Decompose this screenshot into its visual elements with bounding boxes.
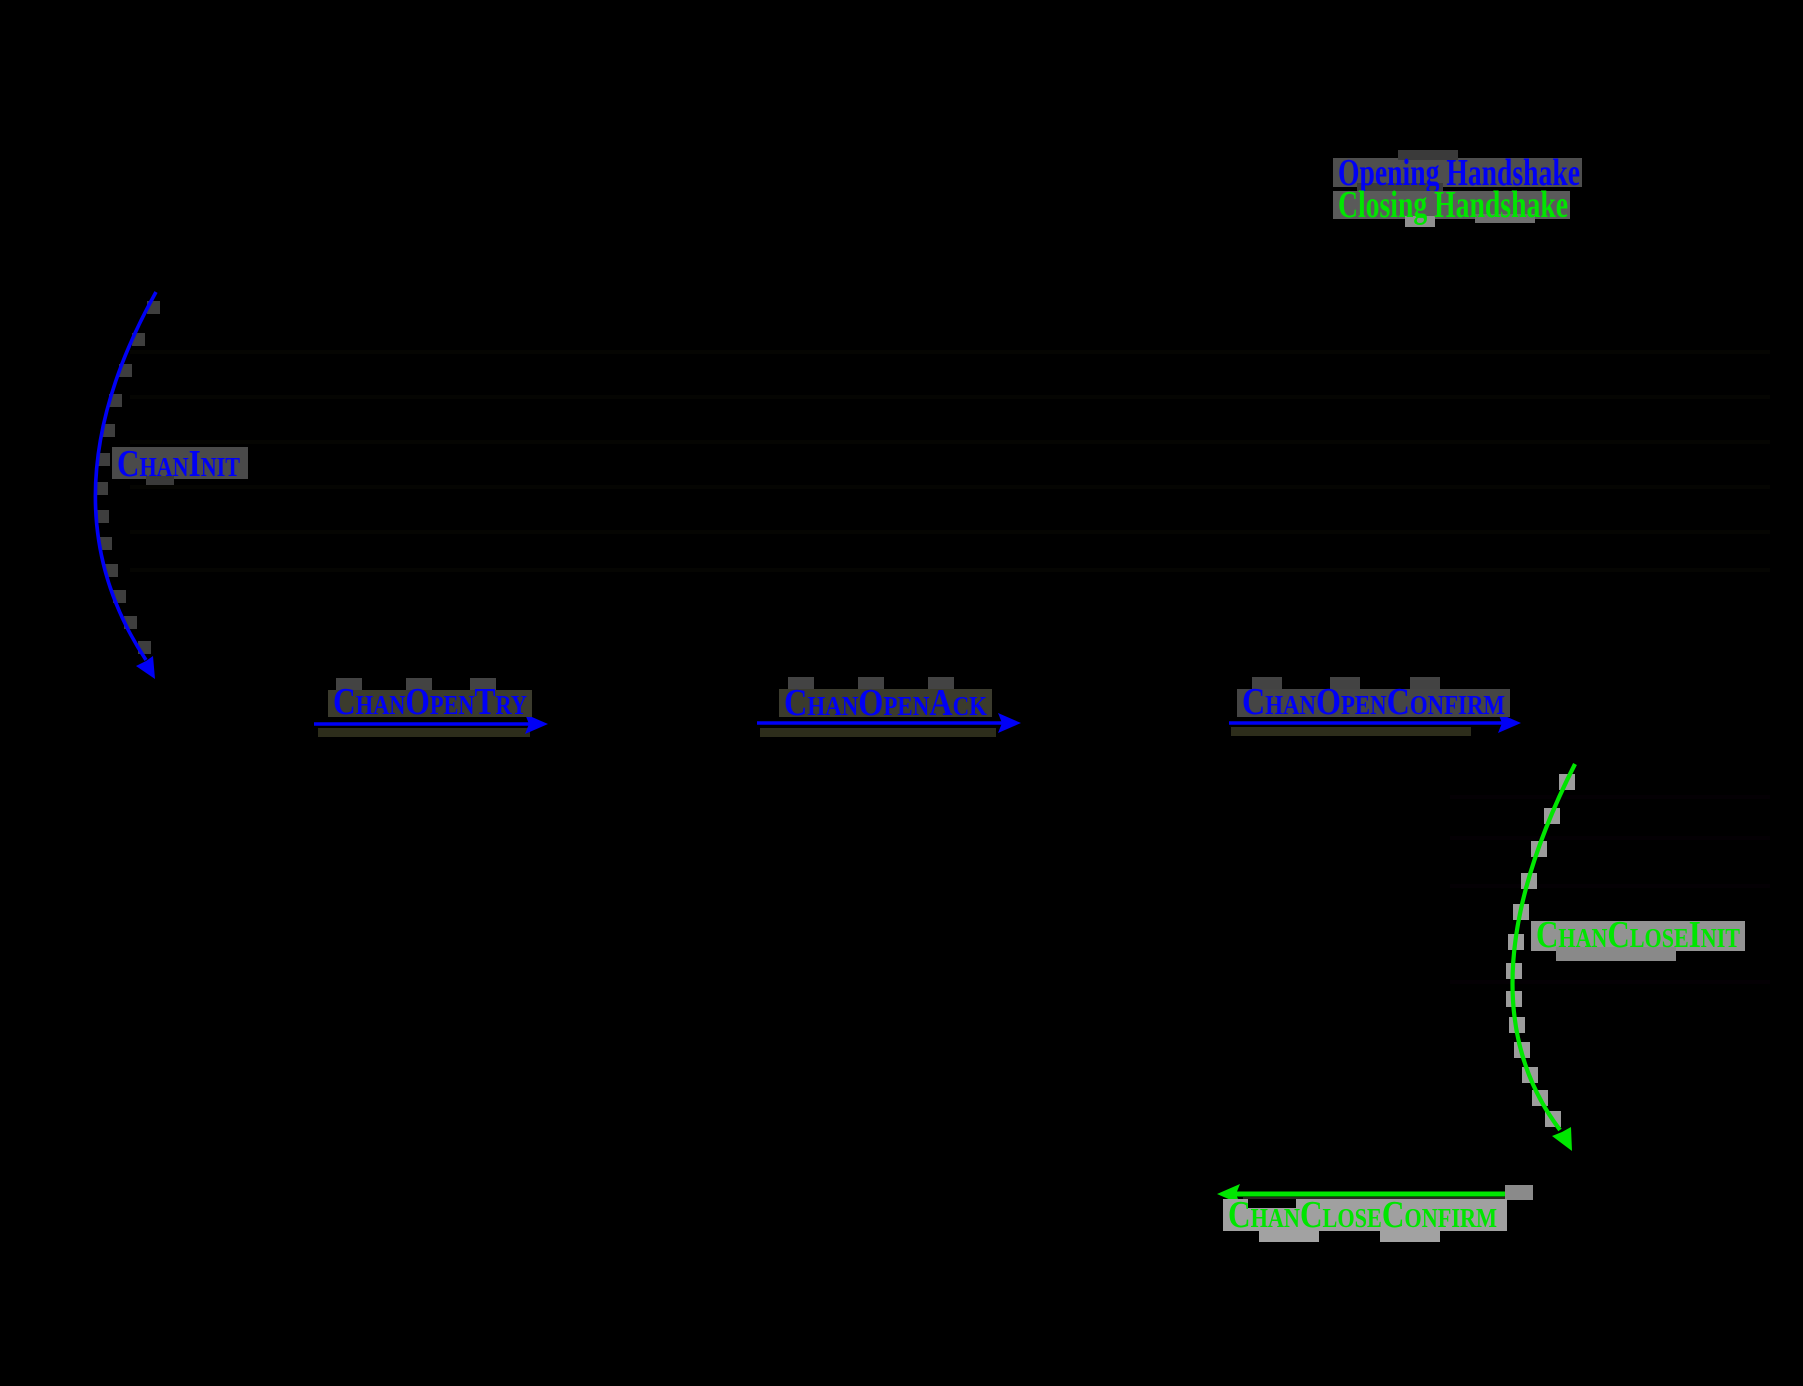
arrow ChanCloseConfirm (green, left) — [1217, 1184, 1533, 1204]
label ChanOpenTry — [328, 678, 532, 723]
faint artifact stripes (hidden text rows) — [130, 350, 1770, 984]
arrow ChanInit (curved, blue) — [95, 292, 160, 679]
svg-text:ChanCloseInit: ChanCloseInit — [1536, 914, 1740, 956]
label ChanCloseInit — [1531, 914, 1745, 961]
arrow ChanOpenConfirm (blue, right) — [1229, 713, 1521, 736]
legend label: Closing Handshake — [1333, 184, 1570, 227]
label ChanOpenConfirm — [1237, 677, 1510, 723]
svg-text:Closing Handshake: Closing Handshake — [1338, 184, 1568, 226]
legend label: Opening Handshake — [1333, 150, 1582, 194]
svg-text:ChanInit: ChanInit — [117, 443, 240, 485]
arrow ChanOpenTry (blue, right) — [314, 714, 548, 737]
svg-text:ChanOpenTry: ChanOpenTry — [333, 681, 527, 723]
svg-text:ChanCloseConfirm: ChanCloseConfirm — [1228, 1194, 1497, 1236]
svg-text:ChanOpenConfirm: ChanOpenConfirm — [1242, 681, 1505, 723]
label ChanOpenAck — [779, 677, 992, 724]
arrow ChanCloseInit (curved, green) — [1506, 764, 1575, 1151]
svg-text:ChanOpenAck: ChanOpenAck — [784, 682, 987, 724]
label ChanInit — [112, 443, 248, 485]
arrow ChanOpenAck (blue, right) — [757, 713, 1021, 737]
label ChanCloseConfirm — [1223, 1194, 1507, 1242]
